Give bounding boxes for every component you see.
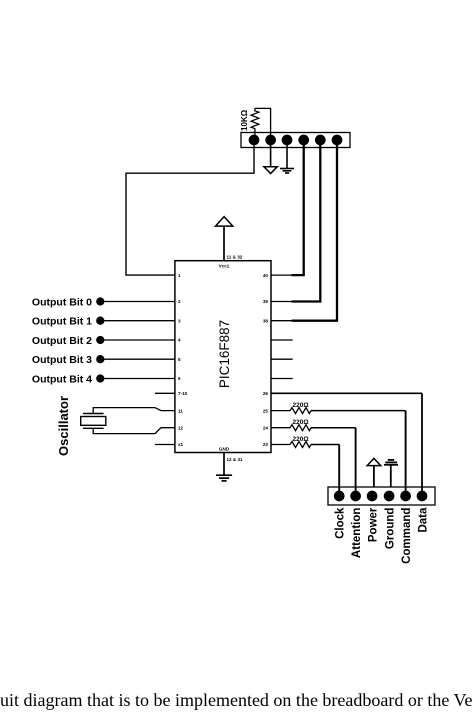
- svg-text:uit diagram that is to be impl: uit diagram that is to be implemented on…: [0, 690, 473, 710]
- wire: IC GND pin to ground: [223, 453, 225, 476]
- J1 pin 6: [332, 135, 341, 144]
- svg-text:Command: Command: [401, 508, 413, 564]
- svg-text:24: 24: [263, 425, 269, 430]
- IC right pin numbers: [263, 273, 269, 447]
- svg-text:Output Bit 1: Output Bit 1: [32, 316, 92, 328]
- IC pin stub 7-10: [155, 392, 175, 394]
- resistor R4 220Ohm (pin 23): [271, 442, 311, 448]
- wire: crystal bottom to IC pin 12: [93, 428, 175, 434]
- node Output Bit 0: [97, 298, 104, 305]
- wire: J1 pin3 to ground: [286, 140, 288, 168]
- svg-text:PIC16F887: PIC16F887: [217, 320, 232, 388]
- wire: J1 pin1 down-left-down to IC pin 1: [126, 140, 254, 275]
- svg-text:25: 25: [263, 408, 269, 413]
- svg-text:7-10: 7-10: [178, 391, 188, 396]
- svg-text:Vcc1: Vcc1: [219, 264, 230, 269]
- IC right no-connect stub row C: [271, 378, 293, 380]
- svg-text:12: 12: [178, 425, 184, 430]
- resistor R3 220Ohm (pin 24): [271, 425, 311, 431]
- svg-text:5: 5: [178, 357, 181, 362]
- svg-text:Data: Data: [417, 507, 429, 533]
- IC pin 39 stub: [271, 301, 292, 303]
- svg-text:Output Bit 2: Output Bit 2: [32, 335, 92, 347]
- J1 pin 1: [249, 135, 258, 144]
- IC pin 38 stub: [271, 320, 292, 322]
- svg-text:Ground: Ground: [385, 508, 397, 550]
- wire: J1 pin2 to supply arrow: [270, 140, 272, 167]
- J2 pin 4: [384, 491, 393, 500]
- svg-text:3: 3: [178, 318, 181, 323]
- wire to IC pin 4: [100, 339, 175, 341]
- J2 pin 5: [401, 491, 410, 500]
- J2 pin 1: [335, 491, 344, 500]
- IC right no-connect stub row B: [271, 358, 293, 360]
- J1 pin 2: [266, 135, 275, 144]
- wire: IC pin 26 to J2 Data: [271, 392, 422, 394]
- svg-text:39: 39: [263, 299, 269, 304]
- power symbol Vdd (open down triangle) under J1 pin 2: [264, 167, 277, 174]
- ground symbol under J1 pin 3: [280, 169, 294, 174]
- svg-text:Attention: Attention: [351, 508, 363, 558]
- IC U1 PIC16F887 body: [175, 261, 271, 453]
- IC pin 40 stub: [271, 274, 292, 276]
- svg-text:38: 38: [263, 318, 269, 323]
- J2 pin 3: [367, 491, 376, 500]
- svg-text:10KΩ: 10KΩ: [240, 109, 249, 131]
- svg-text:220Ω: 220Ω: [292, 436, 308, 443]
- svg-text:Clock: Clock: [335, 507, 347, 539]
- svg-text:40: 40: [263, 273, 269, 278]
- IC right no-connect stub row A: [271, 339, 293, 341]
- node Output Bit 2: [97, 337, 104, 344]
- connector J2 bottom header outline: [328, 487, 435, 505]
- inverted ground symbol above J2 Ground pin: [390, 465, 392, 487]
- wire: R4 to J2 Clock: [311, 444, 339, 446]
- J1 pin 5: [316, 135, 325, 144]
- svg-text:11: 11: [178, 408, 183, 413]
- resistor R1 10KOhm (vertical zigzag above top header pin 1): [251, 108, 259, 135]
- wire: crystal top to IC pin 11: [93, 408, 175, 414]
- node Output Bit 1: [97, 317, 104, 324]
- connector J1 top header outline: [241, 133, 350, 148]
- svg-text:2: 2: [178, 299, 181, 304]
- oscillator crystal body: [81, 417, 106, 426]
- wire: R2 to J2 Command: [311, 410, 406, 412]
- wire to IC pin 6: [100, 378, 175, 380]
- ground symbol below IC: [216, 475, 232, 481]
- wire: resistor top to header pin 2: [255, 108, 271, 140]
- svg-text:23: 23: [263, 442, 269, 447]
- IC pin stub x1: [155, 444, 175, 446]
- wire to IC pin 2: [100, 301, 175, 303]
- wire: J1 pin6 to IC pin 38 (thick): [292, 140, 338, 321]
- wire: J1 pin5 to IC pin 39 (thick): [292, 140, 321, 302]
- svg-text:6: 6: [178, 376, 181, 381]
- J2 pin 6: [417, 491, 426, 500]
- svg-text:12 & 31: 12 & 31: [227, 457, 244, 462]
- wire to IC pin 5: [100, 358, 175, 360]
- svg-text:11 & 32: 11 & 32: [227, 254, 243, 259]
- svg-text:4: 4: [178, 338, 181, 343]
- power symbol (up arrow) above J2 Power pin: [373, 466, 375, 487]
- node Output Bit 3: [97, 356, 104, 363]
- IC left pin numbers: [178, 273, 188, 447]
- svg-text:220Ω: 220Ω: [292, 402, 308, 409]
- wire: J1 pin4 to IC pin 40 (thick): [292, 140, 304, 275]
- svg-text:26: 26: [263, 391, 269, 396]
- svg-text:x1: x1: [178, 442, 184, 447]
- svg-text:Power: Power: [368, 507, 380, 542]
- crystal bottom plate: [83, 427, 104, 429]
- J1 pin 4: [299, 135, 308, 144]
- svg-text:Oscillator: Oscillator: [56, 396, 71, 456]
- J1 pin 3: [282, 135, 291, 144]
- node Output Bit 4: [97, 375, 104, 382]
- svg-text:Output Bit 3: Output Bit 3: [32, 354, 92, 366]
- svg-text:GND: GND: [219, 446, 230, 451]
- supply arrow above IC (Vcc): [223, 226, 225, 261]
- svg-text:220Ω: 220Ω: [292, 419, 308, 426]
- svg-text:Output Bit 0: Output Bit 0: [32, 296, 92, 308]
- svg-text:Output Bit 4: Output Bit 4: [32, 373, 92, 385]
- resistor R2 220Ohm (pin 25): [271, 408, 311, 414]
- svg-text:1: 1: [178, 273, 181, 278]
- J2 pin 2: [351, 491, 360, 500]
- wire: R3 to J2 Attention: [311, 427, 356, 429]
- wire to IC pin 3: [100, 320, 175, 322]
- crystal top plate: [83, 413, 104, 415]
